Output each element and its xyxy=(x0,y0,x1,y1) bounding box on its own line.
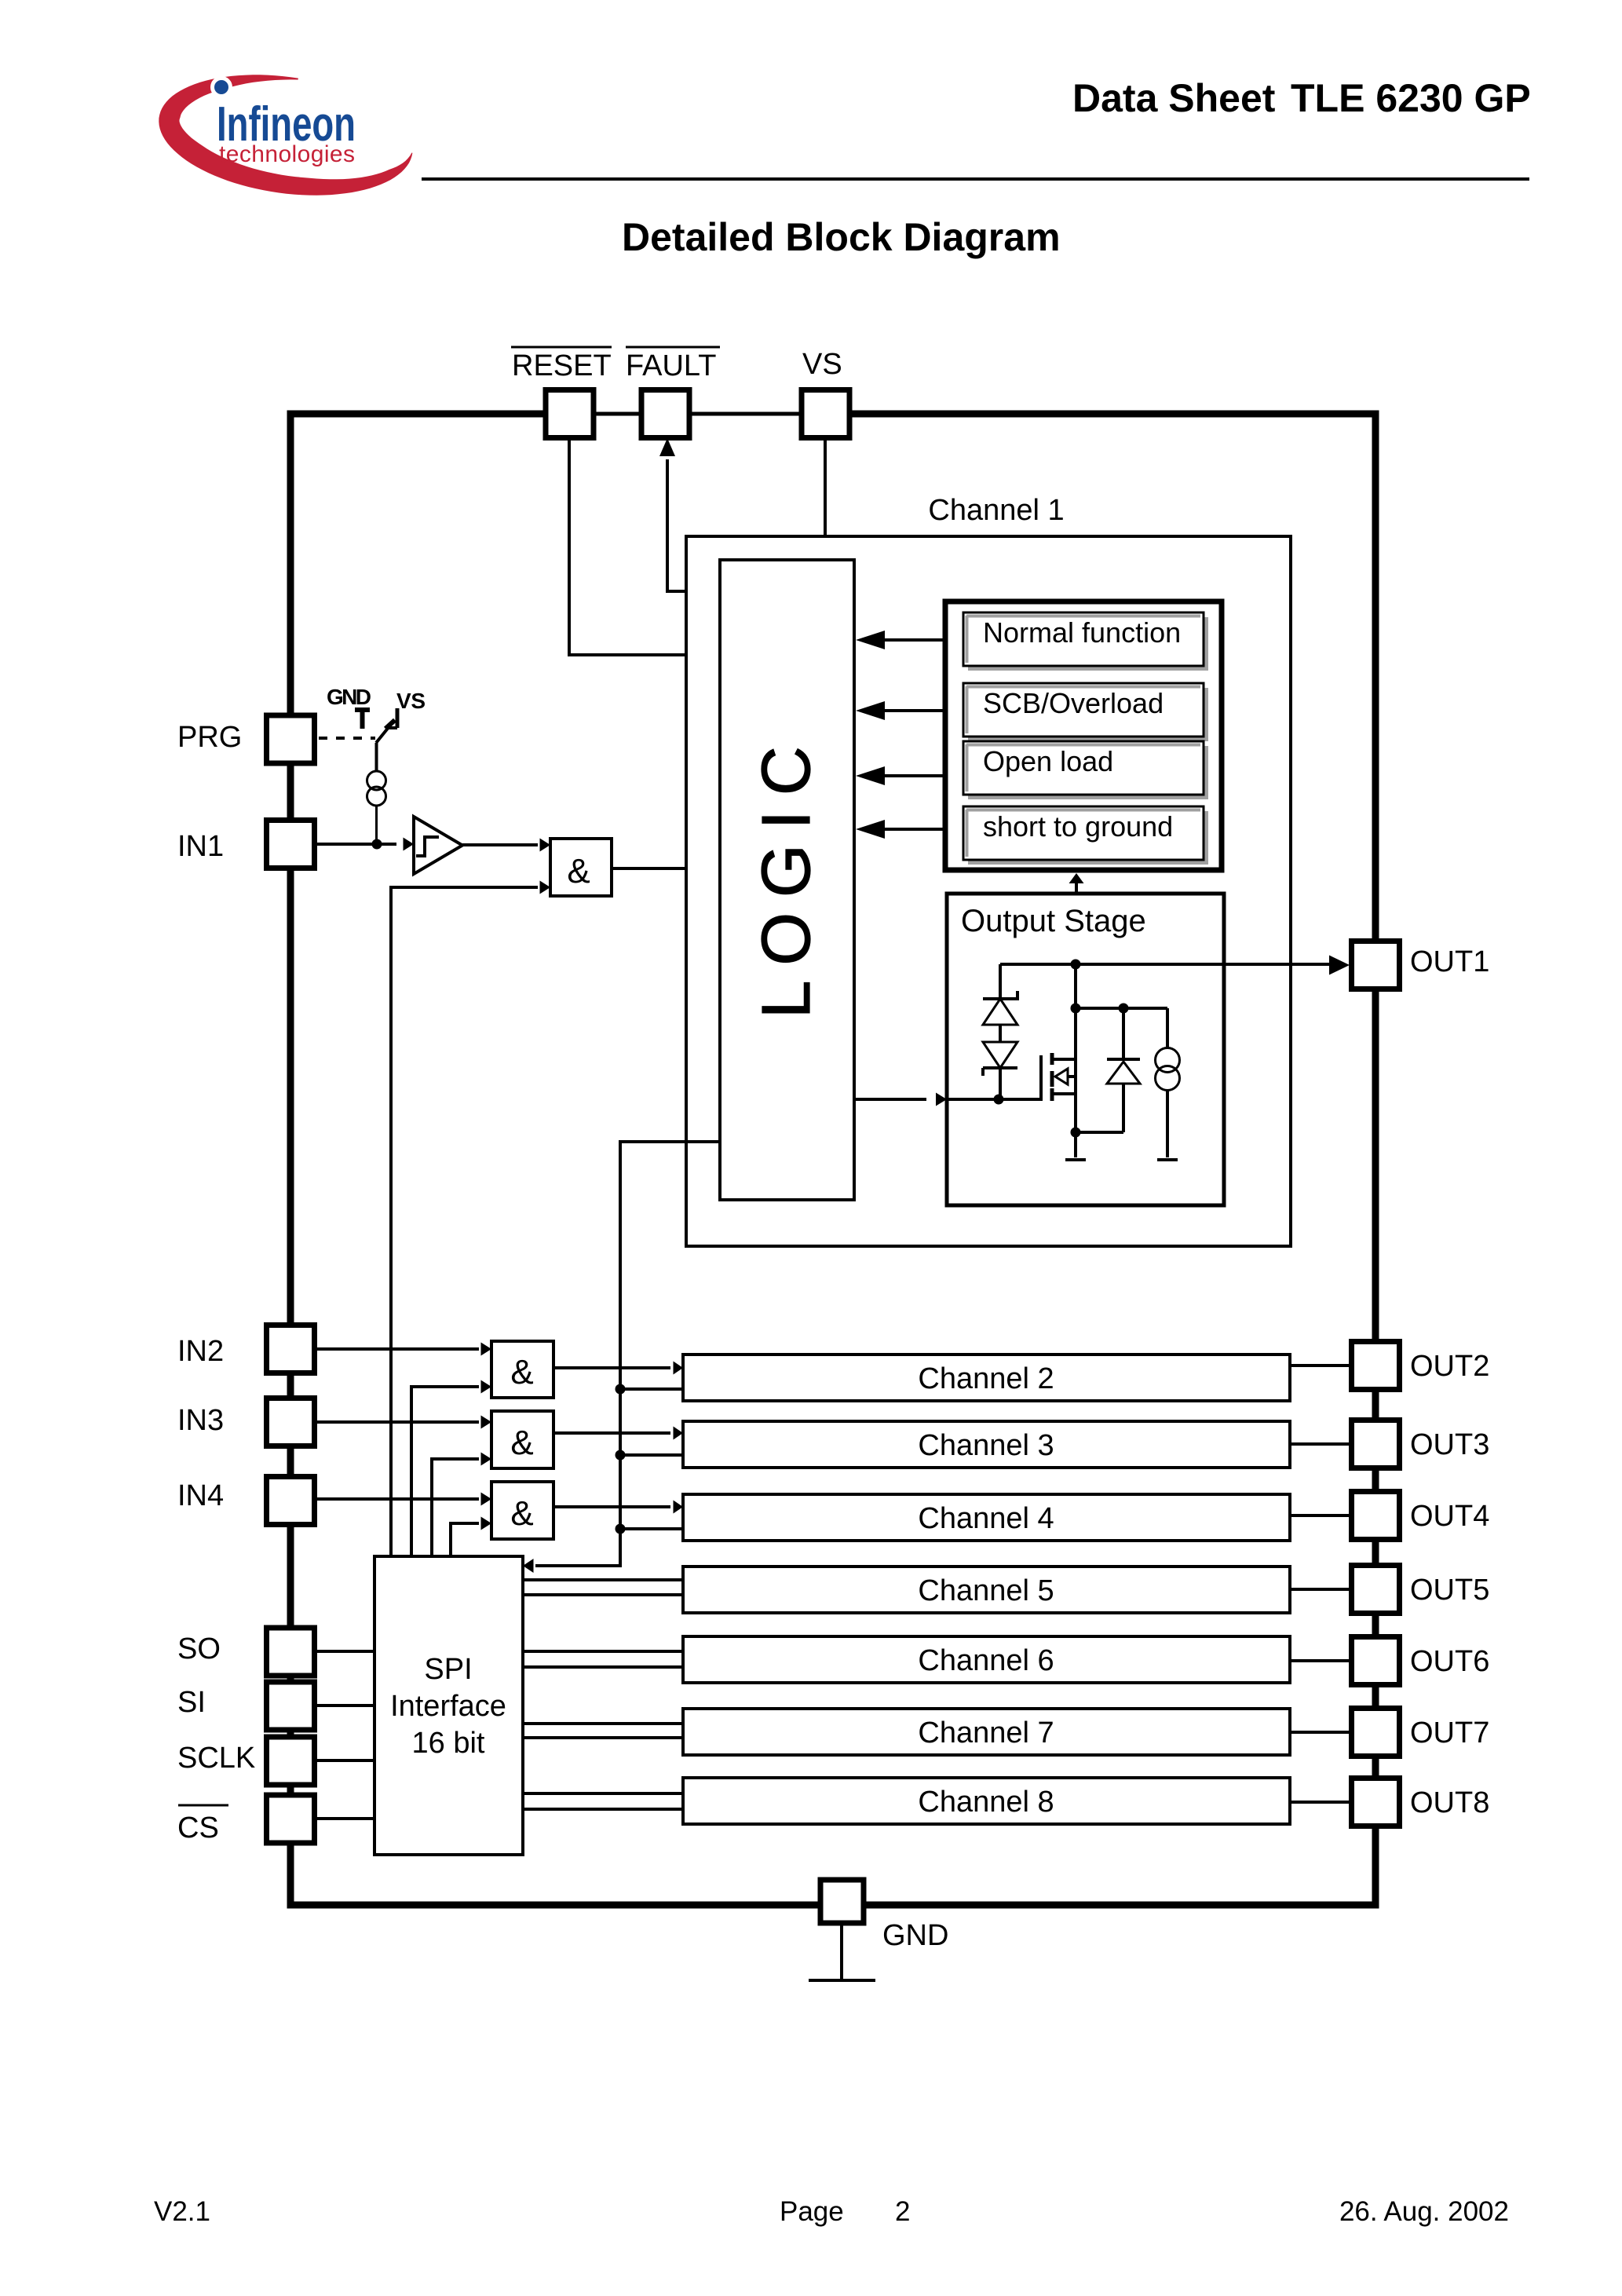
svg-text:Channel 5: Channel 5 xyxy=(918,1574,1054,1607)
svg-text:Channel 8: Channel 8 xyxy=(918,1786,1054,1819)
svg-text:IN1: IN1 xyxy=(177,830,224,863)
svg-text:OUT6: OUT6 xyxy=(1410,1645,1489,1678)
svg-text:IN2: IN2 xyxy=(177,1335,224,1368)
svg-text:OUT3: OUT3 xyxy=(1410,1428,1489,1461)
svg-text:OUT8: OUT8 xyxy=(1410,1786,1489,1819)
svg-text:SPI: SPI xyxy=(424,1653,472,1686)
svg-text:OUT2: OUT2 xyxy=(1410,1350,1489,1383)
svg-text:Channel 3: Channel 3 xyxy=(918,1429,1054,1462)
svg-text:Detailed Block Diagram: Detailed Block Diagram xyxy=(622,215,1061,259)
svg-text:SCB/Overload: SCB/Overload xyxy=(983,687,1164,719)
svg-text:SCLK: SCLK xyxy=(177,1742,255,1775)
svg-text:V2.1: V2.1 xyxy=(154,2196,210,2227)
svg-text:VS: VS xyxy=(396,689,426,713)
svg-text:TLE 6230 GP: TLE 6230 GP xyxy=(1291,76,1531,120)
svg-text:short to ground: short to ground xyxy=(983,810,1173,843)
svg-text:CS: CS xyxy=(177,1812,219,1844)
svg-text:Channel 6: Channel 6 xyxy=(918,1644,1054,1677)
svg-text:SO: SO xyxy=(177,1632,221,1665)
svg-text:OUT5: OUT5 xyxy=(1410,1574,1489,1607)
svg-text:Data Sheet: Data Sheet xyxy=(1072,76,1276,120)
svg-text:Channel 1: Channel 1 xyxy=(928,494,1064,527)
svg-text:Normal function: Normal function xyxy=(983,616,1181,649)
svg-text:IN3: IN3 xyxy=(177,1404,224,1437)
svg-text:&: & xyxy=(510,1494,533,1533)
svg-text:Output Stage: Output Stage xyxy=(961,904,1146,938)
svg-text:technologies: technologies xyxy=(219,141,355,167)
svg-text:2: 2 xyxy=(895,2196,910,2227)
svg-text:Interface: Interface xyxy=(390,1690,506,1723)
svg-text:OUT7: OUT7 xyxy=(1410,1717,1489,1749)
svg-text:16 bit: 16 bit xyxy=(412,1727,485,1760)
svg-text:OUT1: OUT1 xyxy=(1410,945,1489,978)
svg-text:LOGIC: LOGIC xyxy=(748,731,824,1018)
svg-text:Channel 2: Channel 2 xyxy=(918,1362,1054,1395)
svg-text:26. Aug. 2002: 26. Aug. 2002 xyxy=(1339,2196,1509,2227)
svg-text:GND: GND xyxy=(327,685,371,709)
svg-text:FAULT: FAULT xyxy=(626,349,716,382)
svg-text:GND: GND xyxy=(882,1919,948,1952)
svg-text:SI: SI xyxy=(177,1686,206,1719)
svg-text:Page: Page xyxy=(780,2196,844,2227)
svg-text:Channel 4: Channel 4 xyxy=(918,1502,1054,1535)
svg-text:Channel 7: Channel 7 xyxy=(918,1717,1054,1749)
svg-text:OUT4: OUT4 xyxy=(1410,1500,1489,1533)
svg-text:IN4: IN4 xyxy=(177,1479,224,1512)
svg-text:PRG: PRG xyxy=(177,721,242,754)
svg-text:&: & xyxy=(510,1424,533,1462)
svg-text:Open load: Open load xyxy=(983,745,1113,777)
svg-text:RESET: RESET xyxy=(512,349,612,382)
svg-text:&: & xyxy=(567,852,590,890)
svg-text:&: & xyxy=(510,1353,533,1391)
svg-text:VS: VS xyxy=(802,348,842,381)
